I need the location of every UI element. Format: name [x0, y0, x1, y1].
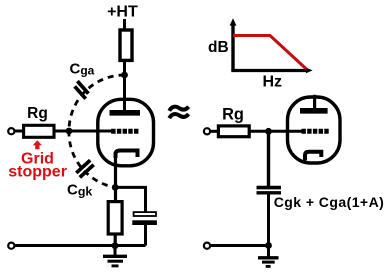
capacitor Cgk dashed arc — [69, 131, 115, 188]
wire anode resistor to plate — [123, 61, 126, 111]
wire Rg to grid — [54, 130, 113, 133]
U1 grid dashes — [111, 129, 140, 134]
svg-text:Rg: Rg — [27, 105, 48, 122]
U1 cathode hook — [116, 151, 138, 159]
wire Miller cap to ground rail — [267, 194, 270, 245]
triode U1 envelope — [98, 99, 154, 166]
wire Ck to ground rail — [144, 225, 147, 246]
node ground junction right — [265, 242, 272, 249]
capacitor Cgk plates — [76, 160, 93, 177]
wire cathode down — [114, 152, 117, 202]
approx equals symbol — [169, 107, 188, 119]
ground rail wire left — [15, 244, 146, 247]
capacitor Cga dashed arc — [69, 75, 125, 131]
resistor Rk (cathode) — [108, 202, 122, 234]
svg-text:Cga: Cga — [70, 61, 95, 78]
node anode junction — [121, 72, 128, 79]
U1 plate bar — [110, 110, 141, 116]
capacitor Miller bottom plate — [257, 191, 282, 194]
triode U2 envelope — [288, 97, 341, 163]
wire HT to anode resistor — [123, 19, 126, 31]
red arrow to Rg — [33, 140, 42, 149]
ground rail wire right — [211, 244, 269, 247]
svg-text:Hz: Hz — [263, 73, 283, 90]
wire input to Rg right — [211, 130, 220, 133]
node grid junction right — [265, 128, 272, 135]
graph x-axis — [231, 69, 307, 72]
wire Rk to ground rail — [114, 235, 117, 246]
U2 plate lead — [313, 95, 316, 110]
graph x-axis arrowhead — [306, 68, 313, 74]
node cathode junction — [112, 184, 119, 191]
capacitor Ck top plate — [134, 212, 156, 216]
ground symbol right — [258, 246, 279, 267]
resistor Rg right — [218, 126, 249, 137]
graph red response curve — [233, 36, 306, 69]
svg-text:Cgk + Cga(1+A): Cgk + Cga(1+A) — [274, 194, 385, 210]
terminal bottom left — [8, 243, 14, 249]
U2 cathode hook — [305, 152, 321, 161]
svg-text:Rg: Rg — [222, 105, 244, 123]
svg-text:Cgk: Cgk — [67, 181, 92, 198]
svg-text:stopper: stopper — [8, 164, 67, 181]
capacitor Miller top plate — [257, 186, 282, 190]
ground symbol left — [103, 246, 127, 266]
wire Rg to grid right — [249, 130, 302, 133]
wire cathode junction to bypass cap — [115, 187, 145, 212]
capacitor Cga plates — [75, 81, 89, 99]
U2 plate bar — [300, 108, 328, 114]
node ground junction left — [112, 242, 119, 249]
wire grid junction down to Miller cap — [267, 131, 270, 186]
resistor Rg (grid stopper) — [24, 125, 54, 137]
svg-text:dB: dB — [208, 39, 229, 56]
input terminal right — [204, 128, 210, 134]
U2 grid dashes — [302, 129, 331, 134]
input terminal left — [8, 128, 14, 134]
capacitor Ck bottom plate — [132, 220, 157, 225]
graph y-axis — [231, 24, 234, 71]
resistor Ra (anode load) — [120, 30, 132, 60]
wire input to Rg — [15, 130, 25, 133]
node grid junction — [66, 128, 73, 135]
graph y-axis arrowhead — [230, 18, 237, 25]
svg-text:+HT: +HT — [107, 4, 138, 21]
terminal bottom right — [204, 243, 210, 249]
